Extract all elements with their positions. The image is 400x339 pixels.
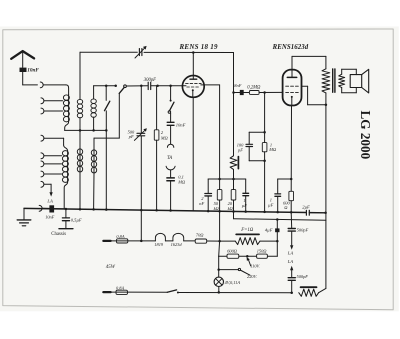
- svg-text:MΩ: MΩ: [268, 147, 277, 152]
- svg-text:8nF: 8nF: [234, 83, 241, 88]
- svg-text:MΩ: MΩ: [160, 135, 169, 140]
- jack TA: [166, 144, 175, 177]
- wire anode row U2: [292, 56, 326, 68]
- capacitor C6 100pF: [237, 131, 266, 162]
- junction heater: [140, 240, 143, 243]
- resistor R4 50k: [214, 179, 222, 211]
- resistor R3 1M: [262, 132, 277, 161]
- svg-text:LA: LA: [46, 199, 53, 204]
- resistor R2 0.2M: [244, 86, 283, 95]
- resistor R1 2M: [154, 86, 168, 211]
- capacitor C10 2uF: [302, 204, 310, 215]
- wire R3 to rail: [264, 161, 266, 212]
- tube U1 RENS 1819 label: [179, 43, 219, 51]
- trimmer capacitor feedback: [135, 46, 147, 58]
- wire divider bus: [208, 178, 246, 181]
- svg-text:0,2MΩ: 0,2MΩ: [247, 86, 261, 91]
- wire to TA jack: [170, 126, 172, 144]
- wire anode corner column: [233, 53, 235, 156]
- capacitor C4 0.1M: [167, 174, 186, 184]
- svg-text:70Ω: 70Ω: [196, 232, 204, 237]
- svg-text:kΩ: kΩ: [214, 206, 220, 211]
- coil L3 secondary (set1 right): [91, 86, 96, 131]
- terminal mains a: [103, 240, 110, 242]
- wire A1 to coil L1: [43, 85, 68, 95]
- potentiometer P1: [230, 156, 238, 179]
- wire coil-set1 bottom bus: [65, 129, 107, 131]
- wire chassis rail: [24, 208, 326, 212]
- resistor R7 70: [195, 232, 219, 243]
- wire cathode corner: [278, 178, 293, 181]
- wire barretter to node: [260, 240, 279, 243]
- transformer T1 secondary: [339, 69, 357, 93]
- fuse F2 0.8A: [111, 285, 168, 294]
- svg-text:LA: LA: [287, 259, 294, 264]
- svg-text:MΩ: MΩ: [177, 179, 186, 184]
- coil L2 reaction (set1 center): [77, 52, 82, 148]
- wire LA column top: [290, 212, 293, 228]
- capacitor C2 300pF: [144, 78, 156, 90]
- socket B2: [41, 153, 62, 159]
- tube U2 RENS1623d label: [272, 44, 309, 51]
- svg-text:TA: TA: [167, 156, 172, 161]
- switch S3 mains: [167, 290, 179, 294]
- wire node down: [267, 241, 277, 256]
- resistor R5 20k: [228, 179, 236, 212]
- wire selector column: [217, 241, 220, 271]
- terminal LA upper: [287, 232, 294, 256]
- tube U1 RENS 1819: [182, 53, 204, 98]
- svg-text:pF: pF: [128, 134, 134, 139]
- capacitor C15 500pF: [288, 274, 308, 293]
- resistor R10 600: [219, 248, 248, 258]
- svg-text:300pF: 300pF: [144, 78, 156, 83]
- capacitor C13 4uF: [265, 218, 280, 241]
- wire screen U2: [302, 86, 328, 106]
- heater U1 1819: [141, 233, 165, 246]
- label 45W: [106, 265, 116, 270]
- svg-text:LG 2000: LG 2000: [358, 111, 373, 160]
- coil L1 primary (set1 left): [63, 95, 69, 131]
- socket B5 LA: [41, 181, 51, 192]
- resistor R11 dropper: [299, 287, 326, 296]
- transformer T1 core: [333, 69, 335, 92]
- label Chassis: [51, 232, 66, 237]
- svg-text:500pF: 500pF: [297, 227, 309, 232]
- terminal LA antenna arrow: [46, 192, 53, 203]
- junction chassis rail: [65, 208, 327, 214]
- svg-text:LA: LA: [287, 250, 294, 255]
- capacitor C8 1uF: [242, 179, 249, 212]
- svg-text:RENS1623d: RENS1623d: [272, 44, 309, 51]
- terminal mains b: [103, 291, 110, 293]
- switch S2: [168, 86, 174, 122]
- wire grid2 column: [264, 93, 266, 133]
- junction coil bus: [79, 129, 108, 132]
- socket B1: [41, 135, 64, 141]
- svg-text:4µF: 4µF: [265, 227, 273, 232]
- wire mains row: [178, 291, 293, 294]
- heater U2 1623d: [165, 233, 195, 247]
- resistor R9 150: [247, 248, 267, 258]
- svg-text:1623d: 1623d: [171, 242, 183, 247]
- svg-text:150Ω: 150Ω: [257, 248, 268, 253]
- capacitor C3 10nF: [167, 122, 185, 127]
- wire grid rail: [94, 85, 186, 87]
- wire TA column to rail: [170, 181, 172, 211]
- fuse F1 0.8A: [111, 234, 142, 243]
- tap 110V: [247, 257, 261, 268]
- svg-text:kΩ: kΩ: [228, 206, 234, 211]
- switch S1a: [105, 86, 110, 131]
- svg-text:µF: µF: [268, 203, 274, 208]
- title LG 2000: [358, 111, 373, 160]
- svg-text:nF: nF: [199, 201, 204, 206]
- transformer T1 primary: [322, 69, 330, 289]
- socket A3: [41, 108, 63, 114]
- wire S1a column: [105, 130, 107, 209]
- junction grid rail: [105, 84, 172, 87]
- wire screen U1: [201, 85, 220, 179]
- svg-text:1819: 1819: [154, 242, 164, 247]
- capacitor C5 8nF: [234, 83, 244, 95]
- socket ground lead: [39, 205, 42, 211]
- wire rail2: [234, 212, 326, 221]
- capacitor C14 500pF: [288, 227, 308, 232]
- capacitor C9 1uF cathode: [268, 179, 281, 212]
- junction 110V tap: [246, 255, 249, 258]
- wire 500pF column: [140, 136, 142, 241]
- svg-text:µF: µF: [242, 203, 248, 208]
- resistor R8 F=1 barretter: [235, 228, 260, 244]
- coil L5 (set2 center): [77, 149, 82, 210]
- capacitor C12 0.5uF chassis: [59, 209, 82, 229]
- svg-text:45W: 45W: [106, 265, 116, 270]
- svg-text:10nF: 10nF: [45, 215, 54, 220]
- terminal LA lower: [287, 259, 294, 277]
- variable capacitor 500pF: [128, 86, 147, 141]
- svg-text:220V.: 220V.: [247, 274, 258, 279]
- tube U2 RENS1623d: [283, 56, 302, 105]
- svg-text:RENS 18 19: RENS 18 19: [179, 43, 219, 51]
- socket B3: [41, 161, 62, 167]
- antenna: [11, 51, 34, 67]
- svg-text:F=1Ω: F=1Ω: [240, 228, 254, 233]
- svg-text:2µF: 2µF: [302, 204, 310, 209]
- svg-text:500pF: 500pF: [297, 274, 309, 279]
- junction anode rail: [192, 51, 195, 54]
- svg-text:600Ω: 600Ω: [227, 248, 238, 253]
- socket A2: [41, 98, 63, 104]
- svg-text:pF: pF: [237, 147, 243, 152]
- switch 220V selector: [219, 268, 258, 279]
- wire heater to barretter: [220, 211, 236, 241]
- coil L4 (set2 left): [62, 138, 68, 209]
- junction 8nF node: [232, 91, 235, 94]
- wire cathode U1: [192, 97, 194, 211]
- svg-text:Chassis: Chassis: [51, 232, 66, 237]
- capacitor C11 10nF ground lead: [42, 205, 65, 219]
- wire anode rail: [80, 51, 234, 53]
- speaker LS: [350, 69, 369, 93]
- junction heater right: [218, 240, 221, 243]
- junction grid2 node: [263, 91, 266, 94]
- svg-text:10nF: 10nF: [176, 122, 186, 127]
- lamp 4V 0.11A: [214, 270, 240, 293]
- socket B4: [41, 171, 62, 177]
- capacitor C1 10nF antenna: [20, 68, 40, 74]
- svg-text:10nF: 10nF: [27, 68, 39, 74]
- coil L6 (set2 right): [91, 150, 96, 210]
- wire S1b to coil set2: [94, 138, 119, 150]
- ground: [17, 208, 31, 225]
- wire antenna to socket: [23, 72, 38, 85]
- switch S1b: [119, 85, 126, 138]
- socket A1: [40, 82, 43, 88]
- resistor R6 600 cathode: [283, 106, 293, 213]
- svg-text:110V.: 110V.: [250, 263, 260, 268]
- capacitor C7 2nF: [199, 179, 211, 211]
